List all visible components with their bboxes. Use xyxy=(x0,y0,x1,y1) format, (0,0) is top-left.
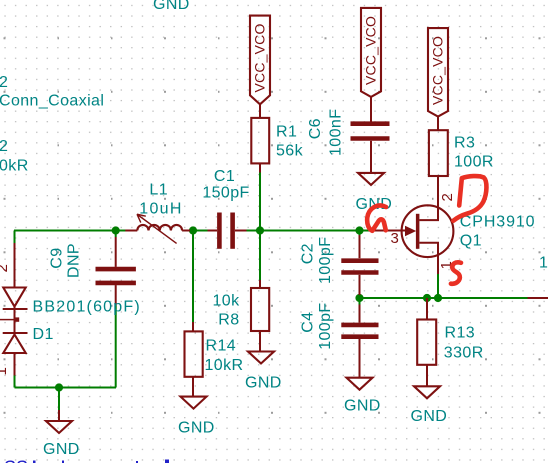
svg-text:GND: GND xyxy=(344,398,381,415)
svg-text:2: 2 xyxy=(0,138,8,155)
svg-text:100nF: 100nF xyxy=(328,109,345,156)
wire main horizontal between C1 and Q1 gate xyxy=(247,230,374,232)
transistor Q1 xyxy=(373,176,535,274)
wire D1 bottom to corner xyxy=(14,376,16,388)
svg-text:100pF: 100pF xyxy=(317,237,334,284)
svg-text:C6: C6 xyxy=(307,118,324,139)
inductor L1 xyxy=(125,182,190,244)
capacitor C2 xyxy=(299,235,378,295)
svg-text:VCC_VCO: VCC_VCO xyxy=(430,36,446,105)
wire second horizontal net xyxy=(360,297,528,299)
svg-text:BB201(60pF): BB201(60pF) xyxy=(33,299,141,316)
varactor diode D1 xyxy=(0,243,141,376)
svg-text:2: 2 xyxy=(439,193,456,201)
svg-text:10uH: 10uH xyxy=(139,201,182,218)
capacitor C6 xyxy=(307,109,390,173)
svg-text:R3: R3 xyxy=(454,135,475,152)
red annotation G squiggle at gate xyxy=(367,205,386,230)
resistor R13 xyxy=(417,298,483,386)
power flag VCC_VCO 2 xyxy=(361,8,381,122)
wire GND stem at bottom junction xyxy=(58,388,60,411)
svg-text:Q1: Q1 xyxy=(460,233,482,250)
ground below R13 xyxy=(411,386,448,425)
svg-text:100pF: 100pF xyxy=(317,302,334,349)
svg-text:R13: R13 xyxy=(445,325,476,342)
red annotation S at source xyxy=(451,262,461,283)
svg-text:100R: 100R xyxy=(454,154,494,171)
svg-text:56k: 56k xyxy=(276,143,304,160)
svg-text:R14: R14 xyxy=(206,338,237,355)
svg-text:GND: GND xyxy=(43,441,80,458)
wire left vertical to D1 xyxy=(14,231,16,244)
resistor R1 xyxy=(251,118,303,173)
svg-text:2: 2 xyxy=(0,74,8,91)
junction at C2/gate node xyxy=(355,226,363,234)
ground bottom left xyxy=(43,410,80,458)
svg-text:SS: SS xyxy=(4,458,28,463)
svg-text:1: 1 xyxy=(539,255,548,272)
svg-text:GND: GND xyxy=(356,196,393,213)
junction at C2/C4 node xyxy=(355,294,363,302)
resistor R8 xyxy=(213,280,270,352)
svg-text:330R: 330R xyxy=(444,345,484,362)
resistor R14 xyxy=(185,322,244,397)
svg-text:CPH3910: CPH3910 xyxy=(460,214,536,231)
svg-text:R1: R1 xyxy=(276,124,297,141)
svg-text:1: 1 xyxy=(0,367,10,375)
wire main horizontal between L1 and C1 xyxy=(190,230,208,232)
wire C4 top stub xyxy=(359,298,361,305)
wire Q1 source to second net xyxy=(437,274,439,298)
junction at R13 node xyxy=(423,294,431,302)
wire bottom horizontal to C9 xyxy=(15,387,117,389)
svg-text:0kR: 0kR xyxy=(0,158,29,175)
svg-text:D1: D1 xyxy=(33,326,54,343)
capacitor C1 xyxy=(202,168,249,249)
wire C9 top stub xyxy=(115,231,117,238)
junction at L1/C9 node xyxy=(112,226,120,234)
svg-text:C9: C9 xyxy=(49,247,66,268)
junction at Q1 source node xyxy=(434,294,442,302)
wire C9 bottom to corner xyxy=(115,306,117,388)
ground below R8 xyxy=(245,352,282,392)
svg-text:GND: GND xyxy=(411,408,448,425)
junction at bottom GND node xyxy=(55,383,63,391)
red annotation D at drain xyxy=(453,176,486,221)
svg-text:R8: R8 xyxy=(218,312,239,329)
capacitor C4 xyxy=(299,302,378,377)
svg-text:10k: 10k xyxy=(213,293,241,310)
wire C2 top stub xyxy=(359,231,361,236)
svg-text:3: 3 xyxy=(391,230,399,247)
ground below C4 xyxy=(344,378,381,415)
wire R1 to R8 vertical xyxy=(259,172,261,280)
capacitor C9 xyxy=(49,237,136,306)
svg-text:GND: GND xyxy=(245,375,282,392)
lead of off-sheet component at right xyxy=(528,297,548,299)
svg-text:150pF: 150pF xyxy=(202,185,249,202)
ground below R14 xyxy=(178,397,215,437)
svg-text:2: 2 xyxy=(0,264,11,272)
wire main horizontal net left segment xyxy=(14,230,126,232)
svg-text:C1: C1 xyxy=(214,168,235,185)
svg-text:10kR: 10kR xyxy=(205,357,244,374)
ground below C6 xyxy=(356,173,393,213)
svg-text:L1: L1 xyxy=(149,182,168,199)
svg-text:DNP: DNP xyxy=(66,243,83,278)
power flag VCC_VCO 1 xyxy=(250,16,270,118)
svg-text:VCC_VCO: VCC_VCO xyxy=(363,16,379,85)
power flag VCC_VCO 3 xyxy=(428,28,448,130)
wire R14 branch vertical xyxy=(192,231,194,323)
svg-text:GND: GND xyxy=(153,0,190,13)
svg-text:GND: GND xyxy=(178,420,215,437)
blue text clipped at bottom edge xyxy=(4,458,169,463)
svg-text:C2: C2 xyxy=(299,243,316,264)
resistor R3 xyxy=(429,130,494,176)
svg-text:VCC_VCO: VCC_VCO xyxy=(252,23,268,92)
svg-text:C4: C4 xyxy=(299,312,316,333)
junction at C1/R1/R8 node xyxy=(256,226,264,234)
junction at L1/R14 node xyxy=(189,226,197,234)
svg-text:Conn_Coaxial: Conn_Coaxial xyxy=(0,93,104,110)
